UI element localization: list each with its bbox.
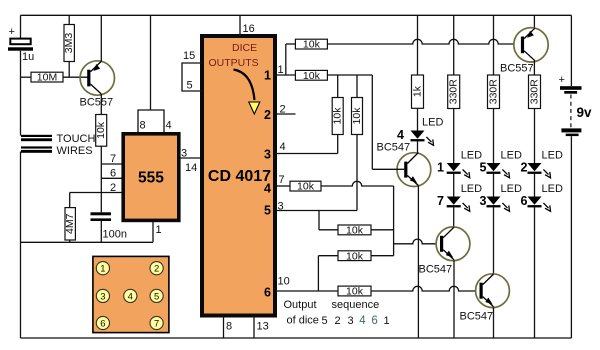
wire: bottom ground rail bbox=[21, 337, 572, 339]
wire: battery positive from top rail bbox=[570, 15, 572, 86]
resistor R14 330R vertical bbox=[448, 75, 460, 109]
dice dot 1 bbox=[96, 262, 109, 275]
dice dot 5 bbox=[150, 289, 163, 302]
wire: left rail from touch wire 2 down to ground rail bbox=[20, 152, 22, 339]
wire: D1 to D7 bbox=[453, 174, 455, 197]
svg-text:330R: 330R bbox=[487, 79, 499, 105]
wire: R6 to Q5 base with hops bbox=[327, 39, 514, 44]
svg-text:1: 1 bbox=[437, 161, 444, 175]
IC U2 CD4017 body bbox=[202, 36, 275, 316]
wire: battery negative to ground rail bbox=[570, 136, 572, 338]
svg-text:7: 7 bbox=[154, 318, 159, 329]
svg-text:3: 3 bbox=[181, 148, 187, 160]
wire: R9 right with hop over R8 wire bbox=[321, 181, 394, 186]
svg-text:6: 6 bbox=[100, 318, 105, 329]
resistor R5 10k (output1 to base node) bbox=[295, 70, 327, 80]
svg-text:1: 1 bbox=[383, 315, 389, 327]
svg-text:330R: 330R bbox=[448, 79, 460, 105]
svg-text:5: 5 bbox=[480, 161, 487, 175]
svg-text:10k: 10k bbox=[351, 107, 363, 125]
svg-text:14: 14 bbox=[185, 162, 197, 174]
wire: 555 pin 2 / 4M7 top row bbox=[70, 192, 122, 194]
svg-text:10M: 10M bbox=[37, 72, 57, 84]
wire: 555 pin 6 bbox=[101, 177, 122, 179]
wire: Q1 collector down bbox=[100, 94, 102, 115]
LED D6 (dot 6) bbox=[528, 197, 551, 212]
svg-text:1u: 1u bbox=[22, 51, 34, 63]
dice dot 7 bbox=[150, 316, 163, 329]
svg-text:+: + bbox=[9, 26, 15, 38]
wire: CD4017 pin 16 to top rail bbox=[239, 15, 241, 36]
wire: D2 to D6 bbox=[534, 174, 536, 197]
dice pattern box bbox=[93, 256, 169, 332]
svg-text:4: 4 bbox=[397, 128, 404, 142]
transistor Q1 BC557 (PNP) bbox=[80, 61, 114, 95]
svg-text:4M7: 4M7 bbox=[64, 213, 76, 234]
wire: R3 bottom down to 100n capacitor bbox=[100, 146, 102, 212]
svg-text:2: 2 bbox=[154, 264, 159, 275]
resistor R6 10k (output1 to Q5 base wire) bbox=[295, 39, 327, 49]
resistor R12 10k (output 6 to Q4 base) bbox=[338, 286, 371, 296]
svg-text:13: 13 bbox=[257, 321, 269, 333]
resistor R10 10k (output 5) bbox=[338, 225, 371, 235]
wire: top positive rail bbox=[21, 14, 572, 16]
wire: Q5 collector to R16 bbox=[533, 61, 535, 75]
svg-text:10k: 10k bbox=[332, 107, 344, 125]
transistor Q4 BC547 (NPN) bbox=[476, 274, 510, 308]
wire: Q5 emitter from top rail bbox=[533, 15, 535, 28]
capacitor C1 1u electrolytic bbox=[10, 39, 30, 45]
svg-text:Output: Output bbox=[284, 299, 317, 311]
wire: output 2 stub bbox=[275, 113, 296, 115]
svg-text:4: 4 bbox=[280, 141, 286, 153]
svg-text:BC547: BC547 bbox=[419, 264, 453, 276]
svg-text:3: 3 bbox=[480, 194, 487, 208]
wire: Q3 base node column bbox=[393, 186, 395, 256]
wire: Q2 emitter to ground rail bbox=[417, 186, 419, 338]
wire: Q3 base wire with hop bbox=[394, 239, 437, 244]
svg-text:1k: 1k bbox=[411, 85, 423, 97]
svg-text:2: 2 bbox=[334, 315, 340, 327]
svg-text:330R: 330R bbox=[528, 79, 540, 105]
svg-text:2: 2 bbox=[521, 161, 528, 175]
svg-text:10k: 10k bbox=[297, 181, 315, 193]
wire: column 3 from rail to R15 bbox=[493, 15, 495, 75]
resistor R15 330R vertical bbox=[488, 75, 500, 109]
svg-text:2: 2 bbox=[264, 108, 271, 122]
svg-text:1: 1 bbox=[264, 69, 271, 83]
transistor Q3 BC547 (NPN) bbox=[436, 227, 470, 261]
svg-text:CD 4017: CD 4017 bbox=[208, 168, 271, 185]
wire: CD4017 pins 15/5 bracket bbox=[182, 63, 202, 91]
svg-text:10k: 10k bbox=[346, 225, 364, 237]
svg-text:6: 6 bbox=[371, 315, 377, 327]
resistor R13 1k vertical bbox=[412, 75, 424, 108]
LED D1 (dot 1) bbox=[447, 163, 470, 178]
wire: output 3 row bbox=[275, 153, 338, 155]
wire: 10M/3M3 node to Q1 base bbox=[63, 76, 88, 78]
wire: CD4017 pin 8 to ground rail bbox=[223, 316, 225, 339]
svg-text:3: 3 bbox=[100, 291, 105, 302]
wire: left rail from capacitor down to touch wire 1 bbox=[20, 51, 22, 136]
LED D4 (dot 4) bbox=[411, 131, 434, 146]
capacitor C2 100n bbox=[91, 212, 112, 215]
wire: R5 right to node column bbox=[327, 74, 372, 76]
wire: R13 to LED D4 bbox=[417, 108, 419, 130]
svg-text:TOUCH: TOUCH bbox=[57, 133, 96, 145]
svg-text:1: 1 bbox=[100, 264, 105, 275]
svg-text:100n: 100n bbox=[103, 229, 127, 241]
svg-text:4: 4 bbox=[359, 315, 366, 327]
dice dot 2 bbox=[150, 262, 163, 275]
dice dot 3 bbox=[96, 289, 109, 302]
wire: R14 to LED D1 bbox=[453, 109, 455, 164]
svg-text:10k: 10k bbox=[303, 39, 321, 51]
wire: 555 supply from top rail to pin 8/4 box bbox=[150, 15, 152, 110]
wire: output 1 row bbox=[275, 74, 295, 76]
svg-text:3: 3 bbox=[348, 315, 354, 327]
dice dot 4 bbox=[124, 289, 137, 302]
wire: column 1 from rail to R13 bbox=[417, 15, 419, 75]
svg-text:LED: LED bbox=[501, 183, 522, 195]
svg-text:8: 8 bbox=[226, 321, 232, 333]
wire: 555 pin 7 bbox=[101, 163, 122, 165]
wire: 555 pins 8/4 bracket box bbox=[138, 110, 164, 134]
svg-text:5: 5 bbox=[322, 315, 328, 327]
svg-text:10k: 10k bbox=[95, 121, 107, 139]
dice dot 6 bbox=[96, 316, 109, 329]
wire: LED D4 to Q2 collector bbox=[417, 141, 419, 153]
wire: Q4 emitter to ground rail bbox=[493, 307, 495, 338]
svg-text:15: 15 bbox=[183, 50, 195, 62]
resistor R7 10k vertical (node to output3 row) bbox=[337, 75, 339, 98]
transistor Q2 BC547 (NPN) bbox=[397, 153, 431, 187]
wire: D5 to D3 bbox=[493, 174, 495, 197]
svg-text:10k: 10k bbox=[346, 286, 364, 298]
wire: output 6 row bbox=[275, 290, 338, 292]
wire: CD4017 pin 13 to ground rail bbox=[253, 316, 255, 339]
battery BT1 9v bbox=[560, 86, 582, 90]
wire: branch down to output 6 row bbox=[317, 256, 319, 291]
wire: Q1 emitter to top rail bbox=[100, 15, 102, 61]
svg-text:10k: 10k bbox=[303, 70, 321, 82]
svg-text:10k: 10k bbox=[346, 250, 364, 262]
svg-text:LED: LED bbox=[422, 117, 443, 129]
LED D5 (dot 5) bbox=[487, 163, 510, 178]
svg-text:OUTPUTS: OUTPUTS bbox=[209, 57, 259, 69]
svg-text:7: 7 bbox=[110, 153, 116, 165]
wire: left vertical rail → capacitor bbox=[20, 15, 22, 38]
wire: D6 to ground rail bbox=[534, 207, 536, 338]
svg-text:4: 4 bbox=[264, 182, 271, 196]
LED D7 (dot 7) bbox=[447, 197, 470, 212]
svg-text:LED: LED bbox=[542, 150, 563, 162]
svg-text:5: 5 bbox=[154, 291, 159, 302]
svg-text:7: 7 bbox=[437, 194, 444, 208]
wire: node column down to Q2 base bbox=[371, 75, 373, 169]
transistor Q5 BC557 (PNP) bbox=[514, 28, 548, 62]
svg-text:16: 16 bbox=[243, 23, 255, 35]
svg-text:555: 555 bbox=[138, 170, 164, 187]
resistor R2 10M horizontal bbox=[21, 76, 32, 78]
svg-text:BC557: BC557 bbox=[80, 97, 114, 109]
IC U1 555 timer body bbox=[123, 134, 179, 221]
wire: D7 to Q3 collector bbox=[453, 207, 455, 227]
svg-text:BC547: BC547 bbox=[460, 311, 494, 323]
LED D3 (dot 3) bbox=[487, 197, 510, 212]
LED D2 (dot 2) bbox=[528, 163, 551, 178]
resistor R4 4M7 vertical bbox=[69, 193, 71, 208]
curved arrow inside CD4017 bbox=[234, 70, 255, 101]
svg-text:1: 1 bbox=[278, 64, 284, 76]
svg-text:+: + bbox=[559, 74, 565, 86]
wire: 555 pin 3 to CD4017 pin 14 bbox=[180, 157, 203, 159]
svg-text:5: 5 bbox=[187, 80, 193, 92]
svg-text:3M3: 3M3 bbox=[63, 33, 75, 54]
svg-text:WIRES: WIRES bbox=[57, 145, 93, 157]
resistor R8 10k vertical (node to output5 row) bbox=[356, 75, 358, 98]
svg-text:7: 7 bbox=[279, 174, 285, 186]
wire: 555 pin 1 down bbox=[152, 222, 154, 243]
wire: R12 to Q4 base with hops bbox=[371, 286, 476, 291]
svg-text:6: 6 bbox=[110, 168, 116, 180]
wire: R16 to LED D2 bbox=[534, 109, 536, 164]
svg-text:of dice: of dice bbox=[287, 315, 319, 327]
svg-text:6: 6 bbox=[264, 286, 271, 300]
wire: output 4 row bbox=[275, 185, 290, 187]
svg-text:sequence: sequence bbox=[332, 299, 380, 311]
wire: output 5 row bbox=[275, 210, 357, 212]
wire: D3 to Q4 collector bbox=[493, 207, 495, 274]
wire: column 2 from rail to R14 bbox=[453, 15, 455, 75]
wire: branch up to R6 bbox=[285, 44, 287, 75]
svg-text:1: 1 bbox=[156, 224, 162, 236]
wire: Q3 emitter to ground rail bbox=[453, 260, 455, 338]
resistor R3 10k vertical (below Q1) bbox=[96, 115, 107, 147]
svg-text:9v: 9v bbox=[577, 105, 593, 120]
svg-text:DICE: DICE bbox=[232, 42, 257, 54]
resistor R9 10k (output 4) bbox=[290, 181, 321, 191]
svg-text:2: 2 bbox=[110, 182, 116, 194]
touch wire plate 2 bbox=[21, 146, 52, 148]
wire: Q2 base bbox=[372, 168, 404, 170]
svg-text:LED: LED bbox=[542, 183, 563, 195]
svg-text:3: 3 bbox=[264, 148, 271, 162]
resistor R16 330R vertical bbox=[529, 75, 541, 109]
svg-text:BC557: BC557 bbox=[500, 63, 534, 75]
svg-text:4: 4 bbox=[166, 120, 172, 132]
svg-text:6: 6 bbox=[521, 194, 528, 208]
touch wire plate 1 bbox=[21, 135, 52, 137]
svg-text:8: 8 bbox=[140, 120, 146, 132]
svg-text:10: 10 bbox=[278, 276, 290, 288]
resistor R1 3M3 vertical bbox=[68, 15, 70, 24]
wire: R15 to LED D5 bbox=[493, 109, 495, 164]
resistor R11 10k (output 6 to Q3 base node) bbox=[318, 255, 338, 257]
svg-text:4: 4 bbox=[128, 291, 133, 302]
svg-text:5: 5 bbox=[264, 204, 271, 218]
wire: local ground row under 555 bbox=[21, 241, 154, 243]
svg-text:LED: LED bbox=[501, 150, 522, 162]
svg-text:BC547: BC547 bbox=[377, 142, 411, 154]
